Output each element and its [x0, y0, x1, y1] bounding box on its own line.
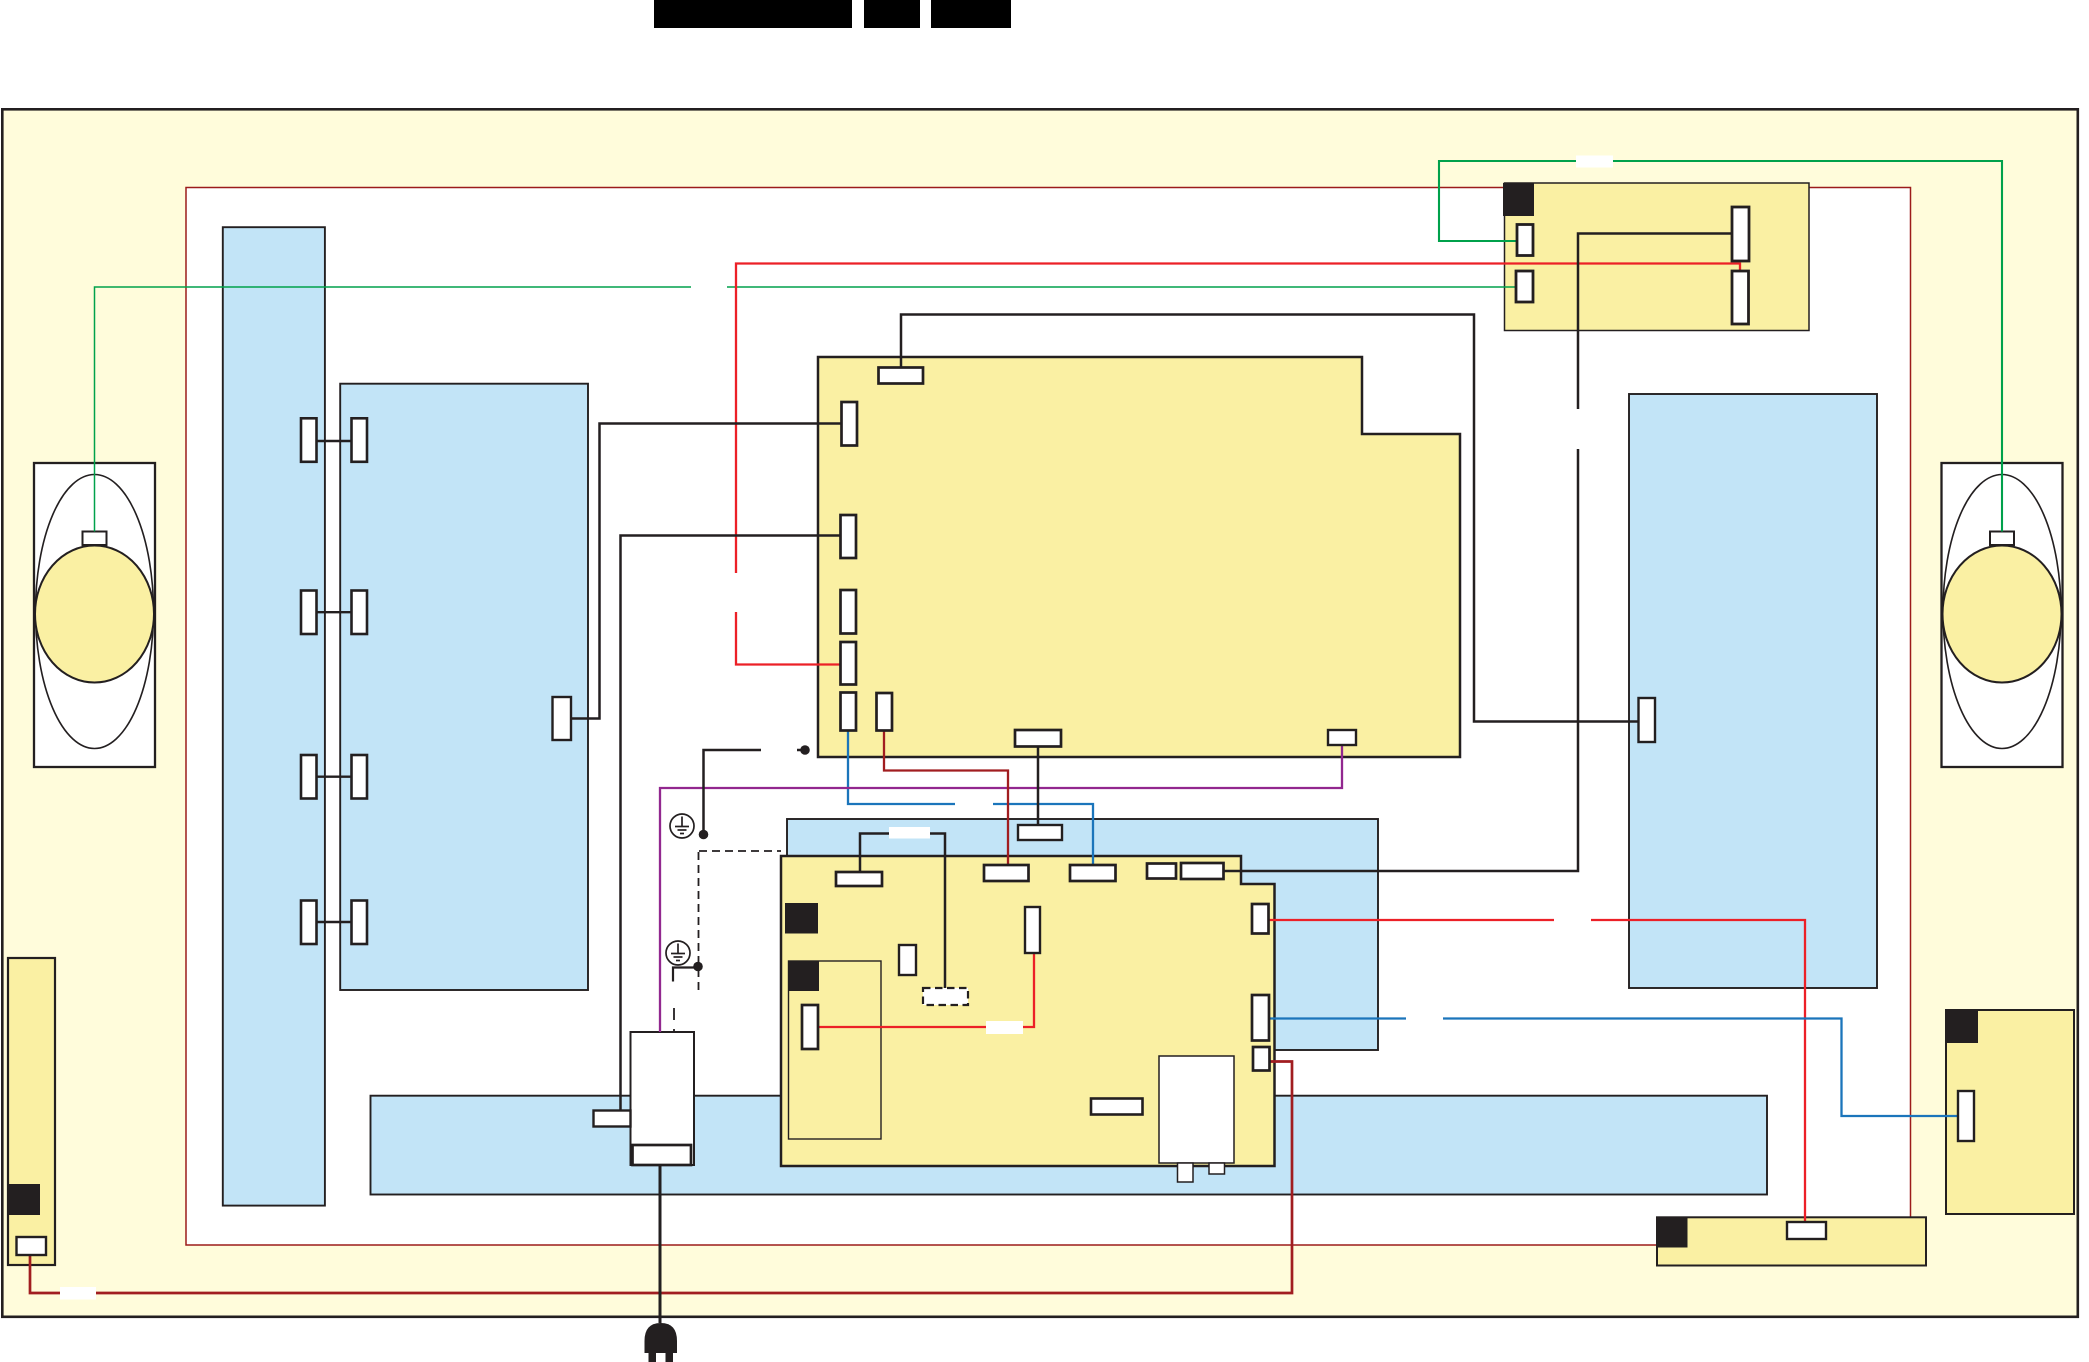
- side AV board mounting pad: [1503, 183, 1534, 216]
- left speaker box: [34, 463, 155, 767]
- heatsink block on power board: [1159, 1056, 1234, 1163]
- side AV board (top right): [1505, 183, 1810, 331]
- connector CN203 (AV board right upper): [1732, 207, 1749, 261]
- label patch on black wire B: [1571, 409, 1585, 449]
- junction dot A: [699, 830, 709, 840]
- wire black C (panel P2 to top board): [571, 424, 842, 719]
- connector pair 1 left: [301, 418, 317, 462]
- wire purple: [660, 745, 1342, 1032]
- connector CN106: [841, 693, 857, 731]
- wire green right speaker: [1439, 161, 2002, 532]
- connector CN301 (power board top 1): [836, 872, 882, 886]
- earth ground symbol 1: [670, 814, 694, 838]
- control board (left edge): [8, 958, 55, 1265]
- connector CN307 (power board mid small): [899, 945, 916, 975]
- IR sensor board mounting pad: [1946, 1010, 1978, 1043]
- label patch on green wire: [1576, 156, 1613, 168]
- wire black F (power board connector to relay): [860, 834, 945, 989]
- right speaker terminal: [1990, 532, 2014, 546]
- connector CN107: [877, 693, 893, 731]
- wire blue to IR board: [1269, 1019, 1958, 1117]
- right speaker cone: [1943, 546, 2062, 683]
- connector CN402 (panel P3 top): [1018, 825, 1062, 840]
- wire green left speaker: [95, 287, 1518, 532]
- right speaker oval: [1943, 475, 2061, 749]
- connector CN403 (panel P4 edge): [1639, 698, 1656, 742]
- connector CN109 (top board bottom right): [1328, 730, 1356, 745]
- connector CN309 (power board right 1): [1252, 904, 1269, 934]
- AC plug body: [645, 1323, 678, 1353]
- wire black G (top board to panel P3): [1037, 747, 1040, 826]
- connector CN101 (top board top): [879, 368, 924, 384]
- connector CN303 (power board top 3): [1070, 865, 1116, 881]
- left speaker oval: [36, 475, 154, 749]
- AC plug prong 1: [649, 1353, 657, 1362]
- heatsink tab 1: [1178, 1163, 1194, 1182]
- wire pair link 4: [317, 921, 352, 923]
- wire red centre (on power board): [818, 953, 1034, 1027]
- connector CN501 (control board): [17, 1237, 47, 1255]
- connector pair 1 right: [352, 418, 368, 462]
- title block bar 1: [654, 0, 852, 28]
- main signal board (top): [818, 357, 1460, 757]
- panel P2 (blue): [340, 384, 588, 990]
- wire red right (to keyboard board): [1269, 920, 1806, 1224]
- wire dark red control board to power board: [30, 1062, 1292, 1294]
- connector CN105: [841, 642, 857, 685]
- junction dot C: [693, 962, 703, 972]
- wire black mains lead: [659, 1165, 662, 1323]
- connector CN308 (power board mid): [1025, 907, 1040, 953]
- connector CN701 (IR board): [1958, 1091, 1974, 1141]
- wire pair link 3: [317, 776, 352, 778]
- connector CN312 (power board bottom): [1091, 1099, 1143, 1115]
- power board shield pad 1: [785, 903, 818, 934]
- label patch on ground link wire: [761, 744, 797, 756]
- connector pair 3 left: [301, 755, 317, 799]
- label patch on left green wire: [691, 281, 727, 293]
- connector CN305 (power board top 5): [1181, 863, 1224, 879]
- connector CN102: [842, 402, 858, 446]
- wire black D (top board to AC inlet): [621, 536, 841, 1111]
- connector CN306 (sub-module): [802, 1005, 818, 1049]
- wire pair link 2: [317, 611, 352, 613]
- connector pair 2 right: [352, 591, 368, 635]
- connector CN104: [841, 590, 857, 634]
- connector CN801 (AC inlet side): [594, 1111, 631, 1127]
- wire black B (AV board to power board): [1224, 234, 1733, 872]
- ground stub wire: [673, 968, 697, 982]
- earth ground symbol 2: [666, 941, 690, 965]
- connector pair 3 right: [352, 755, 368, 799]
- wire dark red from top board: [884, 730, 1008, 865]
- title block bar 3: [931, 0, 1011, 28]
- connector CN202 (AV board left lower): [1516, 271, 1533, 302]
- left speaker terminal: [83, 532, 107, 546]
- connector pair 4 right: [352, 901, 368, 945]
- right speaker box: [1942, 463, 2063, 767]
- AC plug prong 2: [666, 1353, 674, 1362]
- label patch on red right wire: [1554, 914, 1591, 926]
- left speaker cone: [35, 546, 154, 683]
- dashed chassis line horizontal: [699, 850, 781, 852]
- wire black A (top board to right panel): [901, 315, 1639, 722]
- chassis white area with mains dark-red loop wire: [186, 188, 1911, 1246]
- connector CN601 (keyboard board): [1787, 1222, 1826, 1239]
- connector CN401 (panel P2 edge): [553, 697, 572, 740]
- connector CN204 (AV board right lower): [1732, 271, 1749, 324]
- connector CN201 (AV board left upper): [1517, 225, 1533, 256]
- connector CN311 (power board right 3): [1253, 1047, 1270, 1071]
- heatsink tab 2: [1209, 1163, 1225, 1174]
- label patch on black wire F: [889, 827, 930, 839]
- keyboard board mounting pad: [1658, 1218, 1688, 1248]
- dashed stub to AC inlet: [673, 1008, 675, 1032]
- wire black E (chassis ground link): [704, 750, 806, 832]
- keyboard board (bottom right bar): [1657, 1217, 1926, 1265]
- relay (dashed outline): [923, 988, 968, 1005]
- power board (bottom centre): [781, 856, 1275, 1166]
- label patch on red vertical wire: [729, 573, 743, 612]
- connector CN108 (top board bottom centre): [1015, 730, 1061, 747]
- wire blue from top board: [848, 730, 1093, 865]
- title block bar 2: [864, 0, 920, 28]
- connector CN302 (power board top 2): [984, 865, 1029, 881]
- label patch on blue right wire: [1406, 1013, 1443, 1025]
- connector pair 4 left: [301, 901, 317, 945]
- power board shield pad 2: [789, 961, 820, 991]
- power board sub-module outline: [789, 961, 882, 1139]
- control board mounting pad: [9, 1184, 40, 1215]
- dashed chassis line vertical: [698, 852, 700, 993]
- label patch on red centre wire: [986, 1021, 1023, 1034]
- connector pair 2 left: [301, 591, 317, 635]
- panel P5 (bottom blue bar): [371, 1096, 1768, 1195]
- label patch on dark red wire: [60, 1287, 96, 1300]
- connector CN103: [841, 515, 857, 558]
- wire red top (audio): [736, 264, 1740, 665]
- panel P3 (central blue): [787, 819, 1378, 1050]
- AC inlet module: [631, 1032, 695, 1165]
- label patch on blue wire: [955, 798, 993, 810]
- connector CN310 (power board right 2): [1252, 995, 1269, 1041]
- connector CN802 (AC inlet bottom): [633, 1145, 692, 1165]
- panel P4 (right blue): [1629, 394, 1877, 988]
- connector CN304 (power board top 4): [1147, 864, 1176, 879]
- IR sensor board (right): [1946, 1010, 2074, 1214]
- junction dot B: [800, 745, 810, 755]
- wire pair link 1: [317, 440, 352, 442]
- panel P1 (tall blue): [223, 227, 325, 1205]
